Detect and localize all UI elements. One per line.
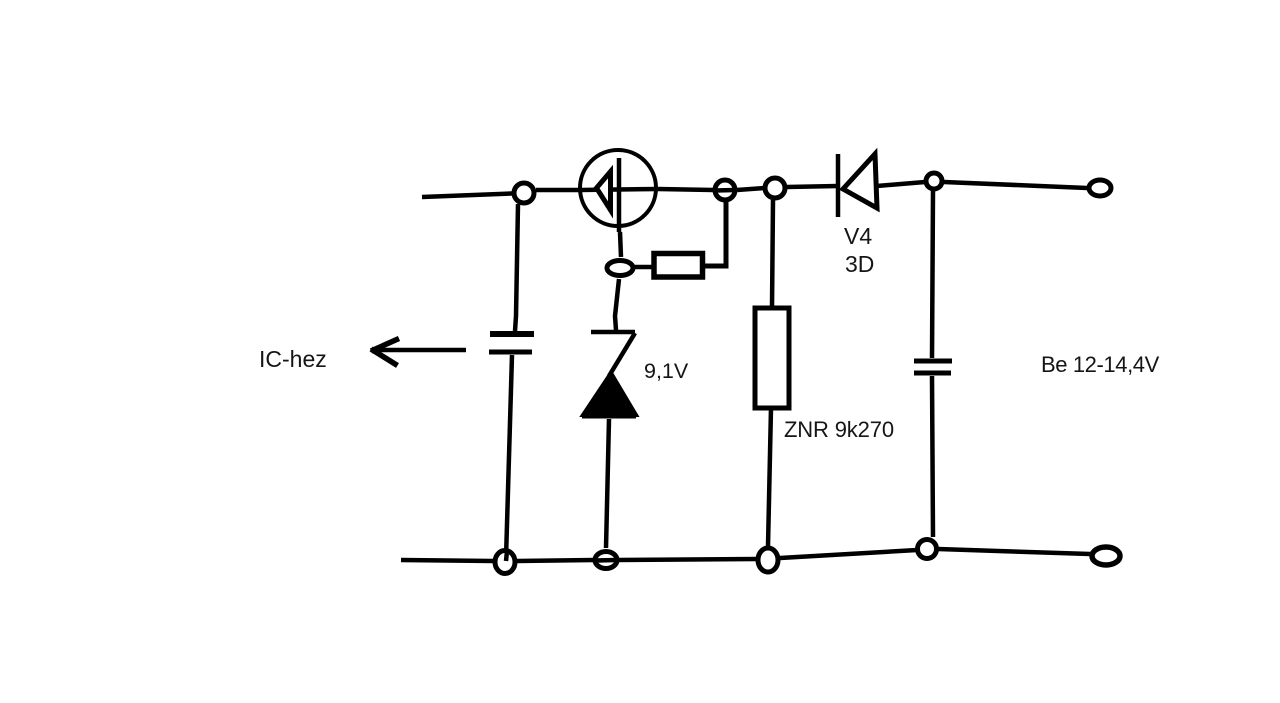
svg-text:Be 12-14,4V: Be 12-14,4V bbox=[1041, 352, 1160, 377]
wire top rail to transistor circle bbox=[536, 188, 580, 193]
node top-left bbox=[514, 183, 534, 203]
capacitor C1 bottom plate bbox=[489, 350, 532, 355]
wire node E to zener bbox=[615, 279, 619, 330]
wire node E to resistor R1 bbox=[635, 265, 654, 270]
diode V4 cathode bar bbox=[836, 154, 841, 217]
transistor U1 arrow triangle bbox=[597, 172, 611, 211]
svg-text:3D: 3D bbox=[845, 251, 874, 277]
arrow IC-hez head lower bbox=[371, 349, 398, 366]
capacitor C2 top plate bbox=[914, 359, 952, 364]
wire top rail left segment bbox=[422, 193, 524, 197]
wire capacitor C1 to bottom node bbox=[506, 355, 512, 558]
svg-text:ZNR 9k270: ZNR 9k270 bbox=[784, 417, 894, 442]
wire bottom rail seg4 slanted bbox=[780, 550, 917, 558]
svg-text:V4: V4 bbox=[844, 223, 872, 249]
node 4 bbox=[918, 540, 937, 559]
terminal T2 bbox=[1092, 547, 1120, 565]
node bottom zener bbox=[595, 552, 617, 569]
wire zener to bottom node bbox=[606, 419, 609, 548]
zener D1 triangle filled bbox=[583, 373, 636, 415]
wire resistor R1 to node A vertical bbox=[703, 202, 727, 266]
node bottom-left bbox=[495, 551, 515, 574]
diode V4 triangle bbox=[843, 154, 877, 208]
wire bottom rail seg2 bbox=[517, 560, 594, 561]
wire ZNR to node 3 bbox=[768, 408, 771, 546]
wire transistor bar to node E bbox=[620, 232, 621, 257]
svg-text:IC-hez: IC-hez bbox=[259, 346, 327, 372]
wire node B to diode V4 bbox=[787, 186, 838, 187]
wire node C to terminal T1 bbox=[944, 182, 1087, 188]
wire left branch down from node bbox=[515, 204, 518, 331]
wire node A to node B bbox=[737, 188, 764, 190]
wire node C down to capacitor C2 bbox=[932, 191, 933, 358]
wire diode to node C bbox=[877, 182, 925, 186]
node E bbox=[607, 261, 633, 276]
zener D1 diagonal bbox=[609, 333, 635, 376]
resistor R1 bbox=[654, 254, 703, 278]
svg-text:9,1V: 9,1V bbox=[644, 359, 689, 383]
wire node B down to ZNR bbox=[772, 200, 773, 308]
wire through node bottom zener bbox=[596, 558, 616, 563]
wire top rail circle to node A bbox=[658, 189, 713, 190]
transistor U1 circle bbox=[580, 150, 656, 226]
arrow IC-hez head upper bbox=[371, 339, 399, 352]
zener D1 base bar bbox=[582, 414, 636, 419]
arrow IC-hez shaft bbox=[372, 348, 466, 353]
node A bbox=[715, 180, 735, 200]
wire bottom rail seg3 bbox=[618, 559, 757, 560]
capacitor C2 bottom plate bbox=[914, 371, 951, 376]
wire bottom rail seg5 bbox=[938, 549, 1090, 554]
terminal T1 bbox=[1089, 180, 1111, 196]
node 3 bbox=[758, 548, 778, 572]
wire poke into node bottom-left bbox=[506, 551, 507, 561]
node B bbox=[765, 178, 785, 198]
capacitor C1 top plate bbox=[490, 331, 534, 337]
node C bbox=[926, 173, 942, 189]
wire through transistor circle bbox=[580, 189, 658, 190]
wire capacitor C2 to node 4 bbox=[932, 376, 933, 537]
wire through node A bbox=[715, 188, 735, 193]
wire bottom rail left bbox=[401, 560, 493, 561]
transistor U1 vertical bar bbox=[617, 158, 622, 232]
resistor ZNR R2 bbox=[755, 308, 789, 408]
zener D1 cathode bar bbox=[591, 330, 635, 335]
